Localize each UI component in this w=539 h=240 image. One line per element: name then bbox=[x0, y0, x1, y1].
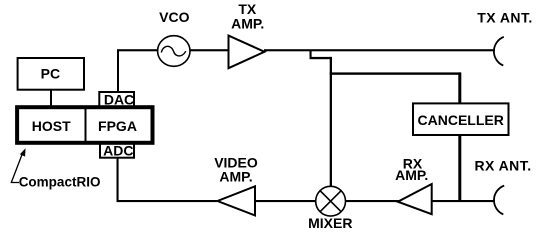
CompactRIO leader arrow bbox=[11, 148, 25, 182]
wire corner to VCO bbox=[117, 49, 158, 51]
wire LO vertical to mixer bbox=[330, 57, 332, 187]
svg-text:VCO: VCO bbox=[159, 9, 189, 25]
CompactRIO chassis box (HOST FPGA) bbox=[17, 107, 152, 143]
wire MIXER to RX AMP bbox=[345, 200, 399, 202]
TX AMP label bbox=[231, 1, 264, 32]
divider between HOST and FPGA bbox=[85, 109, 87, 141]
svg-text:MIXER: MIXER bbox=[308, 215, 352, 231]
wire tap stub horizontal bbox=[310, 57, 332, 59]
svg-text:PC: PC bbox=[41, 65, 60, 81]
DAC box bbox=[99, 92, 134, 108]
RX AMP amplifier triangle bbox=[398, 184, 432, 214]
wire RX AMP to RX ANT bbox=[431, 200, 495, 202]
wire canceller input vertical bbox=[458, 72, 461, 104]
svg-text:AMP.: AMP. bbox=[395, 167, 428, 183]
wire branch to canceller horizontal bbox=[330, 72, 461, 74]
PC box bbox=[18, 58, 84, 90]
svg-text:TX ANT.: TX ANT. bbox=[477, 10, 533, 26]
svg-text:AMP.: AMP. bbox=[219, 168, 252, 184]
svg-text:HOST: HOST bbox=[32, 118, 71, 134]
wire ADC down vertical bbox=[117, 158, 119, 203]
svg-text:FPGA: FPGA bbox=[98, 118, 137, 134]
wire TX AMP to TX ANT bbox=[264, 49, 495, 51]
VCO oscillator circle bbox=[158, 36, 190, 67]
VIDEO AMP amplifier triangle bbox=[218, 186, 256, 215]
svg-text:AMP.: AMP. bbox=[231, 16, 264, 32]
wire PC to HOST bbox=[50, 90, 52, 106]
VIDEO AMP label bbox=[214, 154, 258, 184]
wire canceller output vertical bbox=[458, 135, 461, 202]
wire VIDEO AMP to MIXER bbox=[254, 200, 317, 202]
wire ADC to VIDEO AMP bbox=[117, 200, 218, 202]
ADC box bbox=[100, 142, 134, 158]
MIXER circle with X bbox=[316, 186, 346, 216]
TX ANT antenna arc bbox=[494, 37, 504, 66]
svg-text:RX ANT.: RX ANT. bbox=[474, 158, 531, 174]
RX ANT antenna arc bbox=[494, 186, 504, 215]
wire tap stub vertical bbox=[310, 50, 312, 59]
TX AMP amplifier triangle bbox=[229, 36, 265, 69]
svg-text:DAC: DAC bbox=[104, 92, 134, 108]
svg-text:CANCELLER: CANCELLER bbox=[418, 112, 504, 128]
CANCELLER box bbox=[413, 103, 509, 135]
wire VCO to TX AMP bbox=[190, 49, 230, 51]
svg-text:CompactRIO: CompactRIO bbox=[19, 174, 101, 189]
RX AMP label bbox=[395, 155, 428, 183]
wire DAC up to VCO line bbox=[117, 50, 119, 92]
